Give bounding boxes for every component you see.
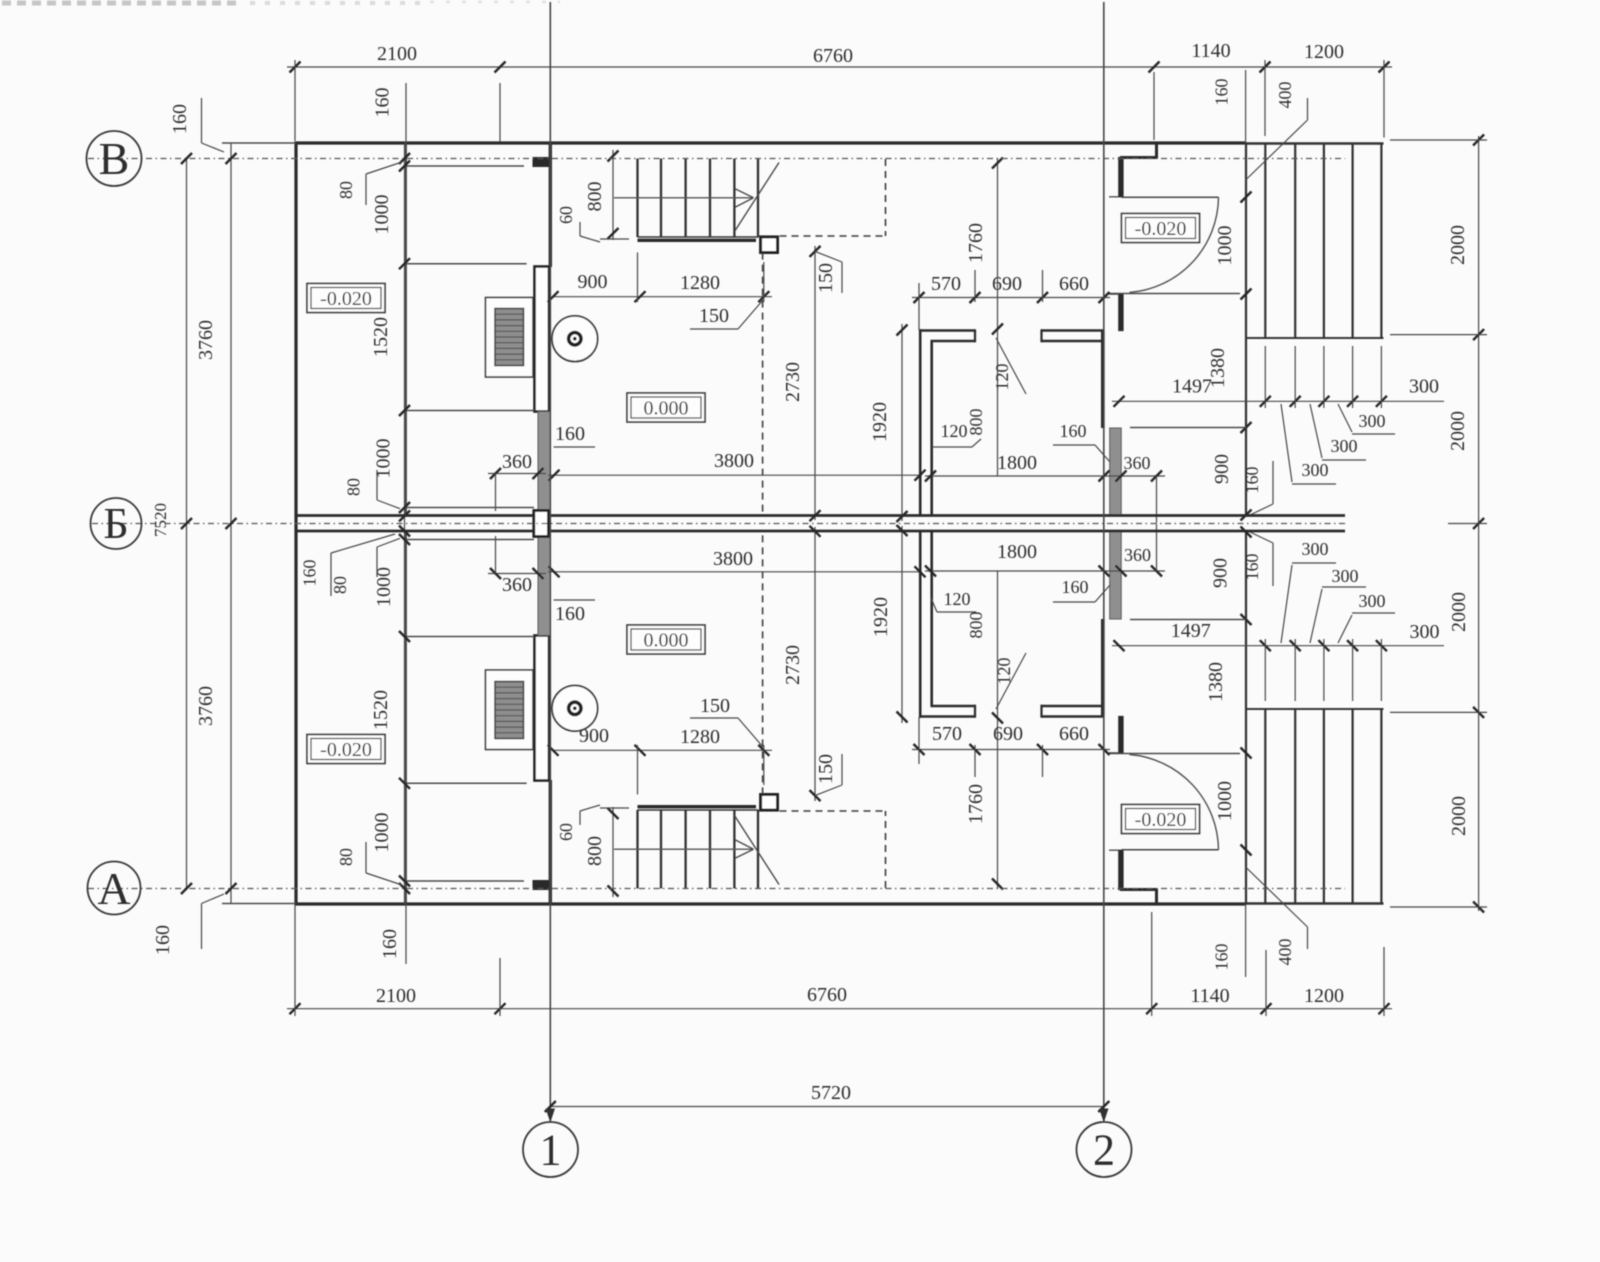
dim 900/1280 line bbox=[552, 296, 772, 298]
svg-text:1920: 1920 bbox=[870, 597, 892, 637]
svg-text:Б: Б bbox=[103, 499, 128, 548]
closet wall left C-shape bbox=[919, 329, 975, 332]
svg-text:2100: 2100 bbox=[376, 985, 416, 1007]
svg-text:1000: 1000 bbox=[373, 439, 395, 479]
svg-text:300: 300 bbox=[1302, 460, 1329, 480]
svg-text:160: 160 bbox=[1212, 944, 1232, 971]
elevation label -0.020 bbox=[1122, 805, 1200, 834]
svg-text:160: 160 bbox=[1242, 554, 1262, 581]
dim 1920 bbox=[901, 324, 903, 521]
party wall at axis B upper face bbox=[296, 514, 1345, 517]
axis circle 1 bbox=[523, 1122, 578, 1177]
top wall inner edge bbox=[406, 165, 524, 167]
svg-text:5720: 5720 bbox=[811, 1082, 851, 1104]
elevation label -0.020 bbox=[307, 284, 385, 313]
svg-text:80: 80 bbox=[330, 576, 350, 594]
ext 160 top at x406 bbox=[405, 83, 407, 143]
axis line 1 vertical bbox=[549, 2, 551, 1121]
svg-text:2000: 2000 bbox=[1447, 225, 1469, 265]
svg-text:1800: 1800 bbox=[997, 541, 1037, 563]
leader 120 closet top bbox=[996, 338, 1026, 394]
insulated party wall gray bar at axis 1 bbox=[538, 412, 550, 517]
svg-text:660: 660 bbox=[1059, 273, 1089, 295]
floor drain symbol bbox=[552, 316, 598, 362]
elevation label 0.000 bbox=[627, 625, 705, 654]
axis arrowheads at 5720 bbox=[546, 1109, 554, 1121]
svg-text:В: В bbox=[99, 133, 130, 184]
svg-text:300: 300 bbox=[1410, 621, 1440, 643]
svg-text:120: 120 bbox=[944, 589, 971, 609]
vestibule door jamb upper stub bbox=[1109, 158, 1123, 197]
vestibule sill line bbox=[1109, 293, 1240, 295]
ext lines top right bbox=[1245, 70, 1247, 143]
svg-text:690: 690 bbox=[993, 723, 1023, 745]
dim 7520 line bbox=[186, 159, 188, 889]
svg-text:800: 800 bbox=[966, 409, 986, 436]
svg-text:60: 60 bbox=[556, 823, 576, 841]
column box at axis1/B crossing bbox=[534, 511, 549, 537]
leader 160 bottom left bbox=[201, 904, 203, 950]
svg-text:2100: 2100 bbox=[377, 43, 417, 65]
svg-text:800: 800 bbox=[584, 182, 606, 212]
svg-text:3800: 3800 bbox=[713, 548, 753, 570]
axis circle Б bbox=[91, 498, 142, 549]
insulated party wall gray bar at axis 2 bbox=[1110, 428, 1122, 516]
vestibule top wall inner thick segment bbox=[1120, 156, 1157, 159]
svg-text:300: 300 bbox=[1359, 411, 1386, 431]
stair treads bbox=[636, 159, 638, 238]
wall notch at stair partition bbox=[533, 158, 550, 167]
party wall extra face lower bbox=[406, 539, 534, 541]
axis circle A bbox=[88, 862, 141, 915]
right exterior wall bbox=[1245, 143, 1247, 516]
leaders 300 trio bbox=[1281, 404, 1292, 482]
svg-text:160: 160 bbox=[300, 560, 320, 587]
stair landing edge / stringer bbox=[638, 236, 759, 238]
vestibule door jamb lower stub bbox=[1109, 294, 1123, 330]
porch bottom edge bbox=[1246, 337, 1384, 339]
dim 5720 line bbox=[550, 1106, 1104, 1108]
svg-text:2000: 2000 bbox=[1448, 592, 1470, 632]
leader 60 stairs bbox=[579, 222, 581, 236]
door leaf bbox=[1122, 196, 1219, 198]
dim 2000 chain bbox=[1478, 136, 1480, 524]
dim 1800 bbox=[925, 475, 1110, 477]
leader 150 rotated bbox=[815, 251, 842, 262]
dashed floor-opening line horizontal bbox=[780, 235, 887, 237]
top exterior wall bbox=[295, 141, 1246, 144]
leader 160 below party wall left bbox=[331, 534, 395, 553]
bottom row extension lines bbox=[294, 905, 296, 1016]
svg-text:1: 1 bbox=[540, 1126, 562, 1175]
svg-text:300: 300 bbox=[1409, 376, 1439, 398]
leader 120 closet bottom bbox=[937, 611, 976, 613]
svg-text:800: 800 bbox=[966, 612, 986, 639]
svg-text:80: 80 bbox=[336, 848, 356, 866]
svg-text:900: 900 bbox=[578, 271, 608, 293]
svg-text:1760: 1760 bbox=[965, 784, 987, 824]
svg-text:1000: 1000 bbox=[1214, 226, 1236, 266]
svg-text:1280: 1280 bbox=[680, 726, 720, 748]
svg-text:120: 120 bbox=[992, 364, 1012, 391]
svg-text:150: 150 bbox=[700, 695, 730, 717]
svg-text:2000: 2000 bbox=[1447, 411, 1469, 451]
svg-text:1280: 1280 bbox=[680, 272, 720, 294]
dim 1497/steps line bbox=[1112, 400, 1444, 402]
svg-text:1920: 1920 bbox=[869, 402, 891, 442]
dim 3760 line bbox=[230, 143, 232, 903]
svg-text:1140: 1140 bbox=[1191, 40, 1230, 62]
svg-text:3760: 3760 bbox=[195, 320, 217, 360]
svg-text:2730: 2730 bbox=[782, 362, 804, 402]
svg-text:1520: 1520 bbox=[370, 317, 392, 357]
svg-text:80: 80 bbox=[336, 181, 356, 199]
svg-text:-0.020: -0.020 bbox=[320, 739, 372, 761]
elevation label -0.020 bbox=[1122, 214, 1200, 243]
party wall at axis B lower face bbox=[296, 530, 1345, 533]
direction arrowhead bbox=[735, 189, 754, 198]
svg-text:3760: 3760 bbox=[195, 686, 217, 726]
svg-text:120: 120 bbox=[994, 658, 1014, 685]
svg-text:150: 150 bbox=[699, 305, 729, 327]
leader 400 bbox=[1307, 98, 1309, 120]
svg-text:570: 570 bbox=[932, 723, 962, 745]
svg-text:400: 400 bbox=[1275, 939, 1295, 966]
svg-text:160: 160 bbox=[1212, 79, 1232, 106]
svg-text:1760: 1760 bbox=[965, 223, 987, 263]
top row extension lines bbox=[294, 60, 296, 141]
dim 1760 bbox=[997, 159, 999, 477]
dim line room left x=404.5 bbox=[404, 143, 406, 524]
porch top edge bbox=[1246, 142, 1384, 144]
2000 chain tick and connector at axis B level bbox=[1473, 518, 1484, 529]
svg-text:690: 690 bbox=[992, 273, 1022, 295]
door/right-wall vertical dims bbox=[1241, 192, 1252, 203]
svg-text:360: 360 bbox=[1124, 453, 1151, 473]
recess lower line bbox=[406, 410, 535, 412]
elevation label 0.000 bbox=[627, 393, 705, 422]
svg-text:150: 150 bbox=[815, 263, 837, 293]
top dimension chain line bbox=[287, 66, 1392, 68]
recess upper line bbox=[406, 263, 527, 265]
svg-text:1380: 1380 bbox=[1207, 348, 1229, 388]
svg-text:0.000: 0.000 bbox=[644, 630, 689, 652]
svg-text:660: 660 bbox=[1059, 723, 1089, 745]
svg-text:160: 160 bbox=[555, 423, 585, 445]
svg-text:1520: 1520 bbox=[370, 690, 392, 730]
svg-text:-0.020: -0.020 bbox=[320, 288, 372, 310]
dashed line below stairs bbox=[762, 253, 764, 516]
svg-text:2: 2 bbox=[1093, 1126, 1115, 1175]
dim 360 at party bar bbox=[1110, 475, 1165, 477]
ventilation shaft hatched block bbox=[495, 309, 524, 366]
svg-text:300: 300 bbox=[1331, 436, 1358, 456]
svg-text:900: 900 bbox=[579, 725, 609, 747]
dim 2730 bbox=[814, 246, 816, 520]
axis circle 2 bbox=[1077, 1122, 1132, 1177]
svg-text:150: 150 bbox=[815, 754, 837, 784]
svg-text:1000: 1000 bbox=[373, 567, 395, 607]
svg-text:900: 900 bbox=[1210, 558, 1232, 588]
wardrobe wall at axis 2 bbox=[1101, 331, 1105, 429]
mirrored lower half geometry bbox=[295, 524, 1488, 978]
svg-text:160: 160 bbox=[555, 603, 585, 625]
faint scan noise top edge bbox=[2, 1, 238, 6]
svg-text:-0.020: -0.020 bbox=[1135, 809, 1187, 831]
ventilation shaft outer box bbox=[486, 298, 534, 378]
svg-text:300: 300 bbox=[1359, 591, 1386, 611]
elevation label -0.020 bbox=[307, 735, 385, 764]
closet wall right segment bbox=[1042, 329, 1105, 332]
leader 150 bbox=[690, 328, 738, 330]
wall jog right of axis 2 bbox=[1155, 142, 1158, 159]
left exterior wall bbox=[294, 142, 297, 524]
dashed floor-opening line vertical bbox=[885, 159, 887, 236]
dim 360 hall bbox=[488, 473, 546, 475]
axis line Б horizontal bbox=[92, 523, 1345, 525]
svg-text:160: 160 bbox=[1060, 421, 1087, 441]
bottom dimension chain line bbox=[287, 1008, 1392, 1010]
svg-text:900: 900 bbox=[1211, 454, 1233, 484]
svg-text:160: 160 bbox=[1062, 577, 1089, 597]
svg-text:6760: 6760 bbox=[813, 45, 853, 67]
svg-text:1497: 1497 bbox=[1171, 620, 1211, 642]
wall edge extension top left bbox=[222, 142, 296, 144]
svg-text:160: 160 bbox=[152, 925, 174, 955]
axis circle B bbox=[87, 131, 142, 186]
svg-text:160: 160 bbox=[1242, 467, 1262, 494]
sill inner line bbox=[1130, 427, 1246, 429]
svg-text:160: 160 bbox=[372, 88, 394, 118]
leader 80 at party wall bbox=[376, 470, 378, 500]
svg-text:1380: 1380 bbox=[1205, 662, 1227, 702]
svg-text:360: 360 bbox=[1124, 545, 1151, 565]
svg-text:2000: 2000 bbox=[1448, 796, 1470, 836]
svg-text:800: 800 bbox=[584, 836, 606, 866]
svg-text:0.000: 0.000 bbox=[644, 398, 689, 420]
svg-text:1000: 1000 bbox=[371, 195, 393, 235]
svg-text:80: 80 bbox=[344, 478, 364, 496]
svg-text:1800: 1800 bbox=[997, 452, 1037, 474]
svg-text:160: 160 bbox=[169, 104, 191, 134]
step extension whiskers bbox=[1264, 346, 1266, 408]
duct block white rectangle bbox=[535, 267, 550, 412]
stair hall partition wall at axis 1 bbox=[549, 143, 552, 267]
leader 160 top left bbox=[201, 98, 203, 143]
svg-text:60: 60 bbox=[556, 206, 576, 224]
dim 570/690/660 bbox=[912, 297, 1110, 299]
axis line A horizontal bbox=[88, 888, 1345, 890]
axis line 2 vertical bbox=[1103, 2, 1105, 1121]
svg-text:1000: 1000 bbox=[371, 813, 393, 853]
leader 80 top bbox=[365, 174, 367, 205]
dim 3800 bbox=[548, 474, 922, 476]
svg-text:-0.020: -0.020 bbox=[1135, 218, 1187, 240]
interior partition wall x=406 bbox=[405, 143, 407, 516]
door swing arc bbox=[1130, 197, 1219, 292]
party wall extra face upper bbox=[406, 507, 534, 509]
leader 160 hall bbox=[554, 446, 595, 448]
svg-text:7520: 7520 bbox=[151, 503, 170, 537]
stair direction line bbox=[614, 197, 754, 199]
axis line B horizontal bbox=[88, 158, 1345, 160]
leader 160 right bbox=[1250, 504, 1273, 515]
svg-text:360: 360 bbox=[502, 451, 532, 473]
porch step lines bbox=[1264, 144, 1266, 339]
svg-text:570: 570 bbox=[931, 273, 961, 295]
svg-text:160: 160 bbox=[379, 929, 401, 959]
svg-text:1497: 1497 bbox=[1172, 376, 1212, 398]
svg-text:6760: 6760 bbox=[807, 984, 847, 1006]
dim 800 stairs bbox=[612, 150, 614, 240]
svg-text:360: 360 bbox=[502, 574, 532, 596]
svg-text:3800: 3800 bbox=[714, 450, 754, 472]
stair break line bbox=[735, 163, 780, 232]
svg-text:300: 300 bbox=[1332, 566, 1359, 586]
svg-text:1140: 1140 bbox=[1190, 985, 1229, 1007]
svg-text:120: 120 bbox=[941, 421, 968, 441]
wall edge extension bottom left bbox=[222, 903, 296, 905]
svg-text:1200: 1200 bbox=[1304, 41, 1344, 63]
leader 120 closet top bbox=[932, 446, 972, 448]
svg-text:1000: 1000 bbox=[1214, 781, 1236, 821]
leader 160 closet bbox=[1053, 444, 1095, 446]
svg-text:1200: 1200 bbox=[1304, 985, 1344, 1007]
svg-text:400: 400 bbox=[1275, 82, 1295, 109]
svg-text:А: А bbox=[97, 863, 130, 914]
svg-text:300: 300 bbox=[1302, 539, 1329, 559]
svg-text:2730: 2730 bbox=[782, 645, 804, 685]
newel post square bbox=[761, 237, 778, 253]
